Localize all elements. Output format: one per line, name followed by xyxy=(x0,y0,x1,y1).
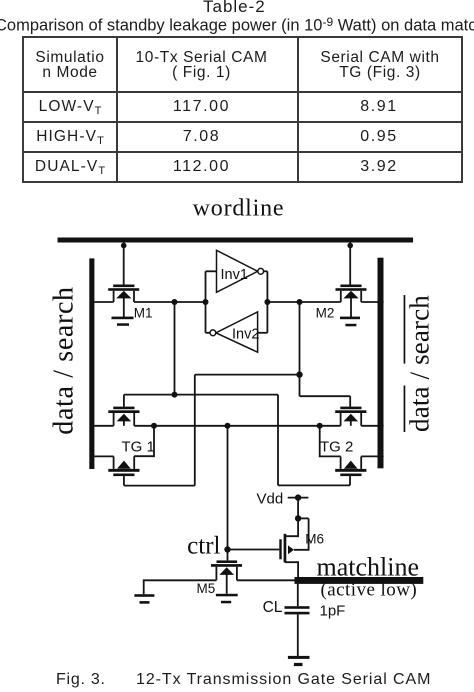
Vdd node xyxy=(257,490,309,521)
svg-text:data / search: data / search xyxy=(49,286,80,434)
node B junction dots xyxy=(264,299,270,305)
wire TG2 bottom to complement bus xyxy=(361,455,378,457)
svg-text:M1: M1 xyxy=(134,306,153,321)
svg-text:matchline: matchline xyxy=(317,553,420,582)
top caption line 2 xyxy=(0,15,474,36)
transistor M6 xyxy=(279,518,324,578)
transistor M1 xyxy=(108,243,152,321)
wire TG1 output xyxy=(134,423,157,456)
wordline bus bar xyxy=(58,195,414,242)
inverter Inv2 xyxy=(206,302,268,352)
complement data / search line (right bus) xyxy=(378,258,435,469)
wire M1 to node A xyxy=(134,301,206,303)
svg-text:(active low): (active low) xyxy=(321,579,418,600)
svg-text:CL: CL xyxy=(263,599,283,616)
wire TG2 top to complement bus xyxy=(361,425,378,427)
svg-text:TG 2: TG 2 xyxy=(320,439,353,456)
op-amp style inverter Inv1 xyxy=(206,250,268,302)
transmission gate TG 1 xyxy=(108,395,155,486)
transistor M5 xyxy=(197,560,243,595)
top caption line 1: Table-2 xyxy=(203,0,266,17)
figure caption xyxy=(56,671,106,689)
wire node B down xyxy=(124,302,350,486)
svg-text:M6: M6 xyxy=(305,531,324,546)
wire data bus to M1 xyxy=(94,301,113,303)
svg-text:M5: M5 xyxy=(197,581,216,596)
wire node A down xyxy=(124,302,350,485)
svg-text:M2: M2 xyxy=(316,306,335,321)
wire bus to TG1 bottom xyxy=(94,455,113,457)
transistor M2 xyxy=(316,243,367,321)
node A junction dots xyxy=(172,299,178,305)
ground (M5 bulk) xyxy=(216,594,238,604)
wire ctrl xyxy=(187,426,279,561)
wire M2 to complement bus xyxy=(361,301,378,303)
wire node B to M2 xyxy=(267,301,340,303)
table of standby leakage power xyxy=(22,36,463,183)
ground (CL) xyxy=(288,656,310,666)
junction on complement bus xyxy=(377,299,383,305)
data / search line (left bus) xyxy=(49,258,95,469)
capacitor CL 1pF xyxy=(263,584,346,656)
svg-text:Vdd: Vdd xyxy=(257,490,284,507)
junction dots on complement bus at TG2 xyxy=(377,423,383,429)
wire M5 drain to matchline xyxy=(237,579,296,581)
ground (M1 bulk) xyxy=(112,317,134,326)
matchline bus bar xyxy=(295,553,424,601)
svg-text:Inv1: Inv1 xyxy=(221,267,248,283)
svg-text:wordline: wordline xyxy=(193,195,285,221)
wire TG2 input side xyxy=(317,423,341,457)
wire M5 source to ground xyxy=(144,580,217,594)
svg-text:TG 1: TG 1 xyxy=(122,439,155,456)
wire TG common output (match node) xyxy=(154,423,320,429)
svg-text:Inv2: Inv2 xyxy=(232,327,259,343)
transmission gate TG 2 xyxy=(320,396,366,485)
wire bus to TG1 top xyxy=(94,425,113,427)
svg-text:1pF: 1pF xyxy=(320,602,346,619)
ground (M2 bulk) xyxy=(340,317,360,327)
ground (M5 source) xyxy=(134,594,154,603)
svg-text:ctrl: ctrl xyxy=(187,533,220,560)
svg-text:data / search: data / search xyxy=(405,295,435,432)
